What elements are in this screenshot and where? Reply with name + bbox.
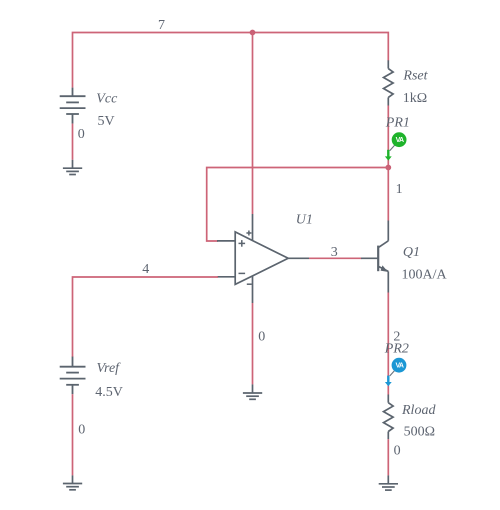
probe PR2 icon [385, 358, 407, 386]
ground below Vref [63, 475, 82, 489]
wire op-amp output to Q1 base [309, 257, 362, 259]
wire op-amp negative supply to ground [252, 303, 254, 384]
voltage source Vcc [60, 88, 86, 124]
svg-text:Rset: Rset [402, 69, 428, 84]
svg-text:1: 1 [396, 182, 403, 197]
svg-text:0: 0 [78, 127, 85, 142]
svg-text:VA: VA [396, 137, 404, 144]
svg-text:5V: 5V [98, 114, 115, 129]
resistor Rset [384, 60, 394, 105]
voltage source Vref [60, 357, 86, 395]
wire node 1 horizontal and feedback to op-amp positive input [207, 168, 389, 242]
op-amp U1 [217, 214, 309, 303]
wire Vref to ground [72, 394, 74, 475]
svg-text:4: 4 [142, 262, 149, 277]
junction on net 7 [250, 30, 256, 36]
wire node 1 to Q1 collector [387, 168, 389, 221]
svg-text:VA: VA [395, 363, 403, 370]
svg-text:1kΩ: 1kΩ [403, 91, 427, 106]
wire op-amp positive supply vertical [252, 33, 254, 215]
svg-text:500Ω: 500Ω [404, 424, 435, 439]
probe PR1 icon [385, 132, 407, 160]
svg-text:PR1: PR1 [385, 116, 410, 131]
junction node 1 [385, 165, 391, 171]
svg-text:Rload: Rload [401, 403, 436, 418]
svg-text:7: 7 [158, 18, 165, 33]
ground below op-amp [243, 384, 262, 399]
svg-text:0: 0 [394, 443, 401, 458]
svg-text:0: 0 [258, 330, 265, 345]
wire net 7 top horizontal [73, 33, 389, 88]
transistor Q1 [361, 221, 388, 293]
wire Vcc to ground [72, 124, 74, 160]
ground below Vcc [63, 160, 82, 175]
resistor Rload [384, 395, 394, 440]
svg-text:PR2: PR2 [384, 341, 409, 356]
wire Rset to node 1 junction [387, 106, 389, 168]
wire net 4 horizontal and Vref vertical [73, 277, 219, 357]
svg-text:U1: U1 [296, 212, 313, 227]
svg-text:100A/A: 100A/A [402, 267, 448, 282]
svg-text:Q1: Q1 [403, 245, 420, 260]
wire Rload to ground [387, 439, 389, 475]
wire Q1 emitter to Rload [387, 293, 389, 395]
ground below Rload [379, 475, 398, 490]
svg-text:Vcc: Vcc [96, 91, 118, 106]
svg-text:Vref: Vref [97, 361, 122, 376]
svg-text:0: 0 [78, 423, 85, 438]
svg-text:4.5V: 4.5V [95, 385, 123, 400]
